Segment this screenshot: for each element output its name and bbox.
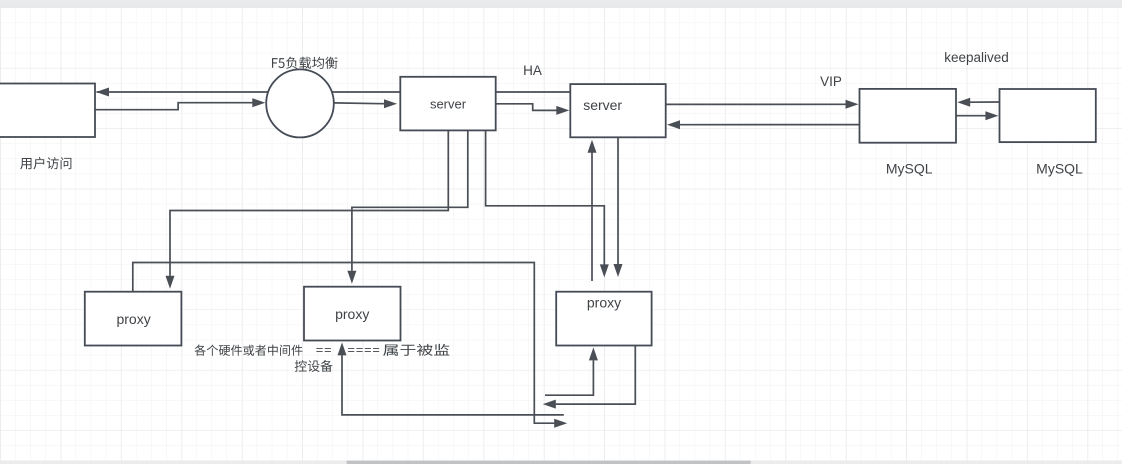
top gray bar (0, 0, 1122, 8)
wire: server1 to server2 stepped link (arrow into server2) (496, 104, 557, 111)
box: user access node 用户访问 (0, 84, 95, 138)
wire: F5 circle to server1 (arrow into server1) (334, 102, 384, 105)
wire: MySQL1 to server2 (arrow into server2 right edge) (680, 124, 860, 126)
svg-text:proxy: proxy (116, 311, 150, 327)
svg-text:keepalived: keepalived (944, 50, 1009, 65)
box: MySQL1 (860, 89, 957, 143)
box: proxy1 (85, 292, 182, 346)
label: annotation line2 控设备 (295, 360, 333, 372)
wire: client to F5 return line (arrow into user box) (97, 91, 401, 93)
svg-text:HA: HA (523, 63, 542, 78)
wire: open line right then up-arrow into proxy3 bottom (545, 360, 593, 395)
svg-text:MySQL: MySQL (886, 161, 933, 177)
svg-text:MySQL: MySQL (1036, 161, 1083, 177)
wire: server1 bottom to proxy2 (down, left, down with arrow) (352, 130, 468, 271)
wire: MySQL2 to MySQL1 (arrow into MySQL1 right edge) (970, 101, 1000, 103)
box: server2 (570, 84, 665, 137)
wire: open line left then up-arrow into proxy2 bottom (342, 355, 564, 415)
wire: server1 bottom to proxy1 (down, left, down with arrow) (170, 130, 448, 276)
svg-text:proxy: proxy (335, 306, 369, 322)
bottom scrollbar track (0, 460, 1122, 464)
box: server1 (400, 77, 495, 131)
circle: F5 load balancer (266, 69, 334, 137)
label: 用户访问 caption under user box (20, 157, 71, 169)
wire: proxy1 top long route right and down to right-arrow (133, 263, 555, 424)
svg-text:server: server (583, 97, 622, 113)
label: annotation equals signs (316, 348, 322, 352)
wire: server2 to MySQL1 (arrow into MySQL1) (666, 103, 846, 105)
bottom scrollbar thumb (346, 461, 751, 464)
label: annotation line1 各个硬件或者中间件 (195, 345, 303, 356)
wire: server1 bottom right branch to above proxy3 (down, right, down arrow) (486, 130, 605, 264)
wire: server2 bottom straight down arrow above proxy3 (617, 137, 619, 264)
box: proxy2 (304, 287, 401, 341)
svg-text:proxy: proxy (587, 294, 621, 310)
label: annotation 属于被监 (wide) (383, 344, 449, 356)
wire: MySQL1 to MySQL2 (arrow into MySQL2 left edge) (956, 115, 986, 117)
box: proxy3 (556, 292, 651, 346)
wire: user box to F5 load balancer (stepped, arrow into circle) (95, 103, 253, 110)
wire: server1 to server2 top straight link (496, 91, 571, 93)
svg-text:server: server (430, 97, 467, 112)
wire: up arrow into server2 bottom (591, 153, 593, 282)
label: F5负载均衡 above circle (272, 57, 338, 69)
box: MySQL2 (1000, 89, 1096, 142)
svg-text:VIP: VIP (820, 74, 842, 89)
wire: proxy3 bottom down then left-arrow (556, 346, 636, 405)
